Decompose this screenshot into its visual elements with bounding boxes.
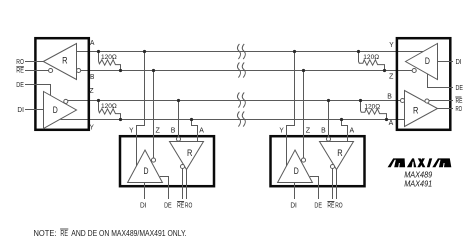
junction line4/R4: [385, 118, 388, 121]
junction line3/R2: [97, 99, 100, 102]
wire bus line 1 (A to Y): [76, 51, 423, 53]
svg-text:B: B: [321, 125, 326, 134]
svg-text:DI: DI: [290, 201, 297, 210]
wire DI (U3): [294, 183, 296, 200]
junction line1/R3: [357, 50, 360, 53]
resistor R1 120ohm (left top pair): [99, 52, 121, 71]
wire DE (U3): [310, 177, 319, 200]
svg-text:RO: RO: [185, 201, 193, 210]
logo letter I: [427, 158, 432, 167]
svg-text:AND DE ON MAX489/MAX491 ONLY.: AND DE ON MAX489/MAX491 ONLY.: [71, 228, 186, 238]
svg-text:Z: Z: [89, 86, 94, 95]
input bubble B (U1): [77, 68, 81, 72]
svg-text:DE: DE: [164, 201, 172, 210]
MAXIM logo: [388, 158, 452, 167]
svg-text:D: D: [294, 166, 299, 176]
junction dots: [97, 50, 388, 121]
output bubble Z (U4): [412, 68, 416, 72]
resistor R3 120ohm (right top pair): [359, 52, 385, 71]
output bubble Z (U1): [64, 99, 68, 103]
svg-text:R: R: [413, 105, 419, 115]
svg-text:B: B: [387, 91, 392, 100]
svg-text:B: B: [171, 125, 176, 134]
wire DI (U2): [144, 183, 146, 200]
svg-text:120Ω: 120Ω: [101, 54, 117, 61]
logo letter X stroke 2: [418, 158, 426, 167]
wire RO (U1): [25, 61, 43, 63]
wire Y tap (U2): [137, 52, 145, 166]
resistor R2 120ohm (left bottom pair): [99, 101, 121, 120]
output bubble Z (U2): [151, 158, 155, 162]
receiver R (U1): [43, 44, 76, 80]
wire bus line 4 (Y to A): [60, 119, 404, 121]
input bubble B (U2): [176, 137, 180, 141]
wire Z tap (U3): [303, 71, 305, 159]
wire Z tap (U2): [153, 71, 155, 159]
svg-text:DE: DE: [314, 201, 322, 210]
overbar RE (U2): [177, 201, 184, 203]
transceiver U1 box: [35, 38, 88, 130]
junction line3/U3 B: [327, 99, 330, 102]
wire A tap (U2): [192, 120, 198, 142]
svg-text:120Ω: 120Ω: [363, 54, 379, 61]
logo letter X stroke 1: [417, 158, 425, 167]
receiver R (U2): [170, 142, 204, 170]
overbar RE (U4): [455, 96, 461, 98]
svg-text:RO: RO: [456, 104, 463, 113]
wire DE (U2): [160, 177, 169, 200]
svg-text:DI: DI: [456, 57, 462, 66]
junction line4/U2 A: [190, 118, 193, 121]
wire Y tap (U3): [287, 52, 295, 166]
logo letter M (second): [432, 158, 451, 167]
wire DI (U1): [25, 109, 44, 111]
svg-text:Y: Y: [279, 125, 284, 134]
wire B tap (U3): [328, 101, 330, 138]
transceiver U3 (bottom right) box: [271, 136, 365, 186]
transceiver U4 (right) box: [397, 38, 450, 130]
svg-text:DI: DI: [140, 201, 147, 210]
svg-text:Y: Y: [129, 125, 134, 134]
overbar RE (U1): [16, 66, 24, 68]
wire RE (U1): [25, 70, 49, 72]
svg-text:RO: RO: [335, 201, 343, 210]
svg-text:MAX491: MAX491: [404, 178, 432, 188]
transceiver U2 (bottom left) box: [120, 136, 214, 186]
overbar RE (U3): [327, 201, 334, 203]
wire RE (U2): [182, 168, 184, 199]
junction line2/U3 Z: [302, 69, 305, 72]
svg-text:RO: RO: [16, 57, 24, 66]
logo letter M: [388, 158, 406, 167]
junction line2/R3: [383, 69, 386, 72]
input bubble B (U3): [326, 137, 330, 141]
resistor R4 120ohm (right bottom pair): [361, 101, 387, 120]
wire DE (U1): [25, 85, 51, 96]
wire bus line 2 (B to Z): [81, 70, 413, 72]
enable bubble RE (U1): [49, 68, 53, 72]
wire DI (U4): [438, 61, 454, 63]
enable bubble RE (U4): [425, 99, 429, 103]
enable bubble RE (U2): [180, 164, 184, 168]
wire RO (U4): [438, 108, 454, 110]
overbar RE (note): [60, 228, 68, 230]
cable break marks on bus lines: [237, 44, 245, 127]
svg-text:DE: DE: [16, 80, 24, 89]
wire A tap (U3): [342, 120, 348, 142]
receiver R (U4): [405, 91, 438, 127]
break mark line 4: [237, 111, 240, 126]
junction line2/U2 Z: [152, 69, 155, 72]
svg-text:Z: Z: [306, 125, 311, 134]
wire DE (U4): [428, 74, 454, 88]
svg-text:A: A: [350, 125, 355, 134]
driver D (U3): [278, 150, 313, 183]
svg-text:DE: DE: [456, 83, 464, 92]
svg-text:RE: RE: [60, 228, 68, 238]
wire RE (U3): [332, 168, 334, 199]
wire bus line 3 (Z to B): [68, 100, 401, 102]
svg-text:120Ω: 120Ω: [101, 103, 117, 110]
svg-text:Y: Y: [90, 122, 94, 131]
svg-text:D: D: [425, 56, 430, 66]
junction line1/U3 Y: [293, 50, 296, 53]
svg-text:Y: Y: [389, 40, 394, 49]
svg-text:DI: DI: [17, 105, 24, 114]
junction line1/U2 Y: [143, 50, 146, 53]
svg-text:R: R: [62, 55, 68, 65]
junction line3/R4: [359, 99, 362, 102]
driver D (U2): [128, 150, 163, 183]
junction line1/R1: [97, 50, 100, 53]
svg-text:Z: Z: [156, 125, 161, 134]
svg-text:Z: Z: [389, 72, 394, 81]
svg-text:R: R: [187, 148, 193, 158]
svg-text:A: A: [90, 38, 95, 47]
logo letter A: [407, 158, 416, 167]
note text: [34, 228, 187, 238]
svg-text:120Ω: 120Ω: [364, 103, 380, 110]
svg-text:D: D: [144, 166, 149, 176]
break mark line 2: [237, 62, 240, 77]
break mark line 1: [237, 44, 240, 59]
enable bubble RE (U3): [330, 164, 334, 168]
break mark line 3: [237, 92, 240, 107]
input bubble B (U4): [400, 98, 404, 102]
wire RO (U2): [186, 170, 188, 200]
output bubble Z (U3): [301, 158, 305, 162]
junction line4/R2: [119, 118, 122, 121]
svg-text:A: A: [389, 118, 394, 127]
driver D (U4): [406, 44, 438, 80]
junction line4/U3 A: [340, 118, 343, 121]
driver D (U1): [44, 92, 77, 129]
receiver R (U3): [320, 142, 354, 170]
wire B tap (U2): [178, 101, 180, 138]
svg-text:B: B: [90, 72, 95, 81]
svg-text:D: D: [53, 105, 58, 115]
junction line3/U2 B: [177, 99, 180, 102]
junction line2/R1: [119, 69, 122, 72]
svg-text:A: A: [199, 125, 204, 134]
svg-text:R: R: [337, 148, 343, 158]
wire RO (U3): [336, 170, 338, 200]
svg-text:NOTE:: NOTE:: [34, 228, 57, 238]
wire RE (U4): [429, 100, 453, 102]
